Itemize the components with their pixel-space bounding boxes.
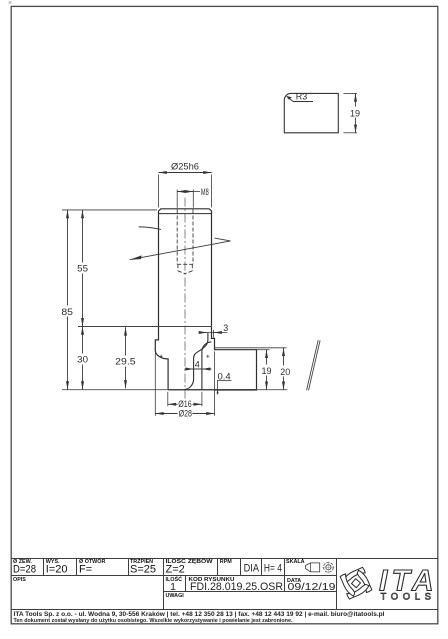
tooth gash profile xyxy=(184,333,208,390)
dim 55 line xyxy=(82,210,84,327)
svg-text:0.4: 0.4 xyxy=(218,371,231,381)
svg-text:I=20: I=20 xyxy=(46,564,68,576)
bottom face xyxy=(168,389,256,391)
svg-text:RPM: RPM xyxy=(220,559,232,565)
dim 19 line xyxy=(266,350,268,390)
detail view rectangle with R3 corner xyxy=(284,93,338,132)
dim 19 (detail) line xyxy=(355,93,357,132)
fillet center mark right xyxy=(206,355,209,358)
svg-text:Ø28: Ø28 xyxy=(179,408,192,418)
dim 3 ext xyxy=(213,330,215,338)
svg-text:FDI.28.019.25.OSR: FDI.28.019.25.OSR xyxy=(190,581,283,593)
svg-text:UWAGI: UWAGI xyxy=(166,593,185,599)
dim M8 line xyxy=(177,191,193,193)
svg-text:TOOLS: TOOLS xyxy=(381,592,436,603)
svg-text:S=25: S=25 xyxy=(130,564,156,576)
shoulder junction line xyxy=(78,326,212,328)
tooth rake face profile xyxy=(202,342,212,390)
title block grid xyxy=(11,559,438,610)
svg-text:19: 19 xyxy=(350,108,360,118)
bottom extension line xyxy=(62,389,287,391)
surface leader line xyxy=(139,227,161,230)
scale icon cone xyxy=(306,563,320,572)
dim Ø28 extension lines xyxy=(155,352,214,416)
svg-text:1: 1 xyxy=(170,581,176,593)
dim 29.5 line xyxy=(125,327,127,388)
dim 19 extension xyxy=(257,349,270,351)
svg-text:H= 4: H= 4 xyxy=(264,562,282,574)
ITA pinwheel logo xyxy=(340,567,373,600)
dim 85 line xyxy=(67,210,69,390)
dim 0.4 underline and leader xyxy=(217,380,231,382)
svg-text:SKALA: SKALA xyxy=(286,559,305,565)
dim Ø25h6 extension lines xyxy=(159,175,212,208)
svg-text:09/12/19: 09/12/19 xyxy=(288,581,336,593)
scanner speck xyxy=(8,1,11,4)
direction arrow annotation xyxy=(130,241,231,260)
svg-text:20: 20 xyxy=(280,367,290,377)
svg-text:M8: M8 xyxy=(201,187,209,197)
svg-text:OPIS: OPIS xyxy=(13,577,26,583)
fillet center mark left xyxy=(160,355,163,358)
dim 20 line xyxy=(283,348,285,390)
svg-text:F=: F= xyxy=(79,564,92,576)
dim 20 extension xyxy=(215,347,287,349)
svg-text:85: 85 xyxy=(61,307,73,317)
svg-text:55: 55 xyxy=(77,264,88,274)
dim Ø25h6 line xyxy=(159,172,212,174)
svg-text:19: 19 xyxy=(261,366,271,376)
chamfer line xyxy=(159,213,212,215)
svg-text:R3: R3 xyxy=(296,92,308,102)
dim 30 line xyxy=(82,326,84,389)
dim Ø16 line xyxy=(168,403,202,405)
svg-text:3: 3 xyxy=(223,323,228,333)
dim 19 (detail) extension lines xyxy=(344,93,358,132)
R3 leader arrow xyxy=(287,96,313,101)
svg-text:D=28: D=28 xyxy=(13,564,36,576)
body left edge and flange notch xyxy=(155,211,168,390)
dim 4 line xyxy=(185,368,212,370)
svg-text:ITA Tools Sp. z o.o. - ul. Wod: ITA Tools Sp. z o.o. - ul. Wodna 9, 30-5… xyxy=(14,612,385,618)
scale icon circles xyxy=(324,562,334,572)
svg-text:4: 4 xyxy=(195,360,200,370)
dim 3 line xyxy=(199,332,227,334)
svg-text:29.5: 29.5 xyxy=(115,357,135,367)
main view centerline xyxy=(184,198,186,400)
cylinder body outline xyxy=(159,209,257,390)
svg-text:Ø25h6: Ø25h6 xyxy=(171,162,199,172)
svg-text:Ten dokument został wysłany do: Ten dokument został wysłany do użytku os… xyxy=(14,618,294,624)
dim Ø28 line xyxy=(155,413,214,415)
slanted stroke mark xyxy=(307,340,321,390)
M8 tapped hole (hidden lines) xyxy=(177,210,193,274)
svg-text:DIA: DIA xyxy=(244,562,260,574)
dim Ø16 extension lines xyxy=(168,392,202,407)
svg-text:30: 30 xyxy=(77,355,88,365)
svg-text:Z=2: Z=2 xyxy=(166,564,185,576)
dim 85 extension top xyxy=(62,209,157,211)
dim M8 extension lines xyxy=(177,190,193,208)
svg-text:Ø16: Ø16 xyxy=(178,399,191,409)
